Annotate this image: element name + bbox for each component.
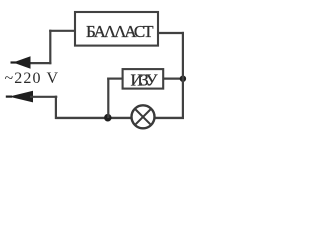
svg-text:БАΛΛАСТ: БАΛΛАСТ xyxy=(86,22,154,41)
wire: ballast right lead xyxy=(158,32,184,34)
wire: lower-left vertical xyxy=(55,96,57,119)
IZU box xyxy=(123,69,164,89)
wire: right vertical xyxy=(182,32,184,119)
wire: IZU left lead xyxy=(107,77,122,79)
wire: to upper arrow xyxy=(28,62,51,64)
ballast box xyxy=(75,12,158,46)
wire: mid vertical (IZU left to bottom) xyxy=(107,78,109,119)
svg-text:ИЗУ: ИЗУ xyxy=(131,71,159,90)
wire: from lower arrow xyxy=(30,96,57,98)
wire: IZU right lead xyxy=(163,77,183,79)
wire: bottom right segment xyxy=(155,117,185,119)
arrow to ~220V (lower) xyxy=(6,91,33,103)
wire: bottom left segment xyxy=(55,117,131,119)
arrow to ~220V (upper) xyxy=(11,56,31,68)
junction: right node xyxy=(180,76,186,82)
junction: bottom node xyxy=(104,114,112,122)
wire: upper-left vertical xyxy=(49,30,51,64)
wire: ballast left lead xyxy=(49,30,75,32)
svg-text:~220 V: ~220 V xyxy=(5,70,59,87)
lamp EL1 xyxy=(132,105,155,128)
